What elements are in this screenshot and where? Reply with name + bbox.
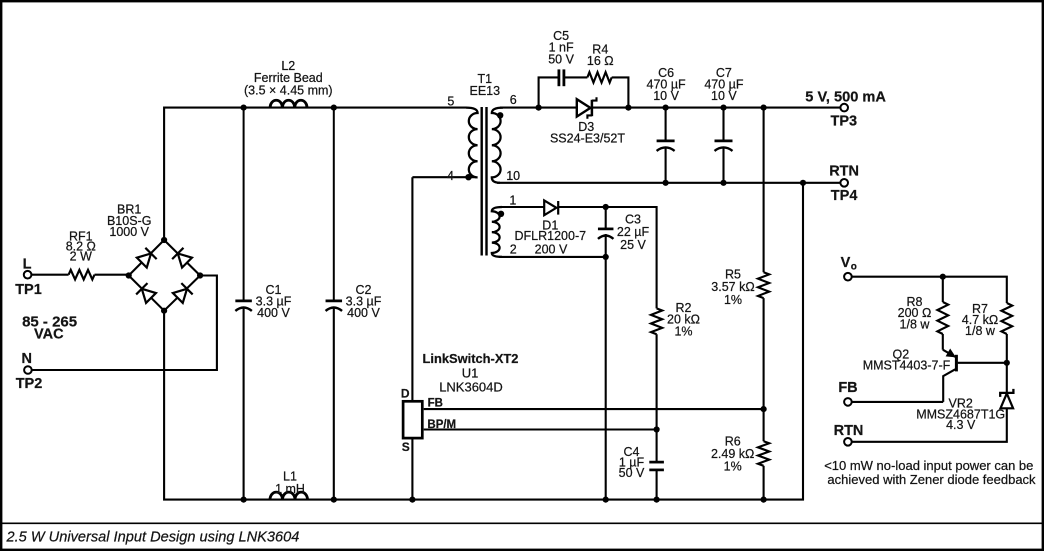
svg-text:BP/M: BP/M bbox=[427, 419, 456, 431]
svg-text:V: V bbox=[841, 255, 851, 271]
svg-text:5: 5 bbox=[447, 94, 454, 108]
svg-text:25 V: 25 V bbox=[620, 238, 646, 252]
svg-text:50 V: 50 V bbox=[619, 466, 645, 480]
svg-text:1000 V: 1000 V bbox=[109, 225, 149, 239]
svg-text:TP1: TP1 bbox=[15, 282, 42, 298]
svg-text:TP3: TP3 bbox=[831, 114, 858, 130]
svg-text:L: L bbox=[23, 256, 32, 272]
svg-text:10 V: 10 V bbox=[653, 89, 679, 103]
svg-text:S: S bbox=[402, 440, 410, 454]
svg-text:5 V, 500 mA: 5 V, 500 mA bbox=[805, 90, 886, 106]
svg-text:4.3 V: 4.3 V bbox=[946, 418, 976, 432]
svg-text:1: 1 bbox=[509, 193, 516, 207]
svg-text:200 V: 200 V bbox=[535, 242, 568, 256]
svg-text:D: D bbox=[401, 386, 410, 400]
svg-text:1/8 w: 1/8 w bbox=[900, 318, 931, 332]
svg-text:TP2: TP2 bbox=[16, 376, 43, 392]
svg-text:1%: 1% bbox=[724, 460, 742, 474]
svg-text:400 V: 400 V bbox=[347, 306, 380, 320]
svg-text:RTN: RTN bbox=[829, 163, 859, 179]
svg-text:1/8 w: 1/8 w bbox=[965, 324, 996, 338]
svg-text:DFLR1200-7: DFLR1200-7 bbox=[515, 229, 587, 243]
svg-text:o: o bbox=[851, 262, 857, 273]
svg-text:EE13: EE13 bbox=[470, 84, 501, 98]
svg-text:4: 4 bbox=[447, 169, 454, 183]
svg-text:SS24-E3/52T: SS24-E3/52T bbox=[550, 132, 625, 146]
svg-text:16 Ω: 16 Ω bbox=[587, 54, 614, 68]
svg-text:1%: 1% bbox=[724, 293, 742, 307]
svg-text:FB: FB bbox=[838, 380, 857, 396]
svg-text:1 mH: 1 mH bbox=[275, 482, 305, 496]
svg-text:10: 10 bbox=[506, 169, 520, 183]
svg-text:LNK3604D: LNK3604D bbox=[439, 379, 503, 394]
svg-text:6: 6 bbox=[510, 93, 517, 107]
svg-text:2: 2 bbox=[510, 242, 517, 256]
svg-text:10 V: 10 V bbox=[711, 89, 737, 103]
svg-text:<10 mW no-load input power can: <10 mW no-load input power can be bbox=[824, 458, 1033, 473]
svg-text:achieved with Zener diode feed: achieved with Zener diode feedback bbox=[827, 472, 1036, 487]
svg-text:2 W: 2 W bbox=[70, 250, 92, 264]
svg-text:1%: 1% bbox=[674, 324, 692, 338]
svg-text:RTN: RTN bbox=[834, 423, 864, 439]
svg-text:MMST4403-7-F: MMST4403-7-F bbox=[863, 358, 951, 372]
svg-text:50 V: 50 V bbox=[548, 53, 574, 67]
svg-text:LinkSwitch-XT2: LinkSwitch-XT2 bbox=[423, 351, 519, 366]
svg-text:N: N bbox=[22, 351, 32, 367]
svg-text:VAC: VAC bbox=[34, 327, 64, 343]
svg-text:2.5 W Universal Input Design u: 2.5 W Universal Input Design using LNK36… bbox=[6, 530, 300, 546]
svg-text:(3.5 × 4.45 mm): (3.5 × 4.45 mm) bbox=[244, 83, 333, 97]
svg-text:FB: FB bbox=[428, 398, 443, 410]
svg-text:TP4: TP4 bbox=[831, 188, 858, 204]
svg-text:400 V: 400 V bbox=[257, 306, 290, 320]
